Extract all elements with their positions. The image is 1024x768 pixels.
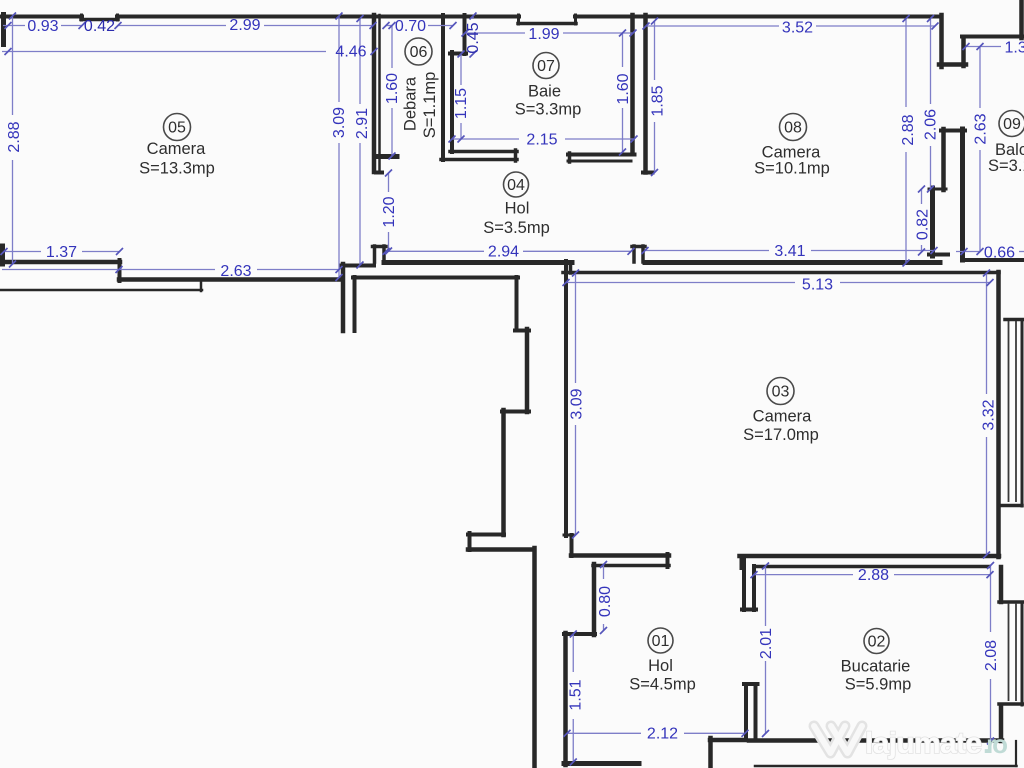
- svg-text:03: 03: [772, 384, 790, 401]
- svg-text:4.46: 4.46: [335, 44, 366, 61]
- svg-text:S=3.5mp: S=3.5mp: [483, 219, 550, 237]
- svg-text:S=17.0mp: S=17.0mp: [743, 426, 819, 444]
- svg-text:1.51: 1.51: [568, 679, 585, 710]
- svg-text:S=4.5mp: S=4.5mp: [629, 675, 696, 693]
- svg-text:2.06: 2.06: [923, 109, 940, 140]
- svg-text:3.32: 3.32: [981, 399, 998, 430]
- svg-text:2.08: 2.08: [983, 640, 1000, 671]
- svg-text:Bucatarie: Bucatarie: [841, 657, 911, 675]
- svg-text:S=13.3mp: S=13.3mp: [139, 159, 215, 177]
- svg-text:2.01: 2.01: [758, 628, 775, 659]
- svg-text:0.70: 0.70: [395, 18, 426, 35]
- svg-text:1.20: 1.20: [381, 196, 398, 227]
- svg-text:2.99: 2.99: [229, 17, 260, 34]
- svg-text:Camera: Camera: [753, 407, 813, 425]
- svg-text:0.80: 0.80: [597, 586, 614, 617]
- svg-text:1.60: 1.60: [615, 73, 632, 104]
- svg-text:Hol: Hol: [648, 657, 673, 675]
- svg-text:2.63: 2.63: [973, 113, 990, 144]
- svg-text:3.09: 3.09: [331, 107, 348, 138]
- svg-text:01: 01: [652, 633, 670, 650]
- svg-text:Debara: Debara: [401, 76, 419, 131]
- svg-text:06: 06: [410, 44, 428, 61]
- svg-text:1.37: 1.37: [1005, 40, 1024, 57]
- svg-text:07: 07: [537, 58, 555, 75]
- svg-text:1.15: 1.15: [453, 88, 470, 119]
- svg-text:2.88: 2.88: [858, 567, 889, 584]
- svg-text:1.99: 1.99: [528, 26, 559, 43]
- svg-text:Camera: Camera: [147, 140, 207, 158]
- svg-text:1.37: 1.37: [46, 244, 77, 261]
- svg-text:08: 08: [784, 120, 802, 137]
- svg-text:5.13: 5.13: [802, 277, 833, 294]
- svg-text:Hol: Hol: [505, 199, 530, 217]
- svg-text:S=10.1mp: S=10.1mp: [754, 159, 830, 177]
- svg-text:0.82: 0.82: [915, 209, 932, 240]
- svg-text:2.91: 2.91: [354, 108, 371, 139]
- svg-text:lajumate: lajumate: [865, 727, 982, 760]
- svg-text:02: 02: [868, 634, 886, 651]
- svg-text:0.66: 0.66: [984, 245, 1015, 262]
- svg-text:2.94: 2.94: [488, 244, 519, 261]
- svg-text:S=3.1mp: S=3.1mp: [988, 157, 1024, 175]
- svg-text:0.45: 0.45: [465, 22, 482, 53]
- svg-text:2.88: 2.88: [900, 114, 917, 145]
- svg-text:0.42: 0.42: [84, 18, 115, 35]
- svg-text:1.60: 1.60: [384, 73, 401, 104]
- svg-text:.ro: .ro: [983, 729, 1008, 759]
- svg-text:3.09: 3.09: [569, 388, 586, 419]
- svg-text:Baie: Baie: [528, 82, 561, 100]
- svg-text:2.12: 2.12: [647, 726, 678, 743]
- svg-text:3.52: 3.52: [782, 20, 813, 37]
- svg-text:2.15: 2.15: [526, 132, 557, 149]
- svg-text:2.88: 2.88: [6, 121, 23, 152]
- svg-text:S=3.3mp: S=3.3mp: [515, 100, 582, 118]
- svg-text:2.63: 2.63: [220, 263, 251, 280]
- svg-text:S=5.9mp: S=5.9mp: [845, 675, 912, 693]
- svg-text:09: 09: [1003, 116, 1021, 133]
- svg-text:05: 05: [168, 120, 186, 137]
- svg-text:3.41: 3.41: [774, 243, 805, 260]
- svg-text:1.85: 1.85: [650, 85, 667, 116]
- svg-text:S=1.1mp: S=1.1mp: [421, 72, 439, 139]
- svg-text:0.93: 0.93: [27, 18, 58, 35]
- svg-text:04: 04: [507, 177, 525, 194]
